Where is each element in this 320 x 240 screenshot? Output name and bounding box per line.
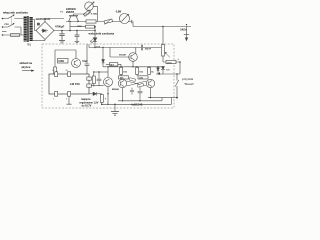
svg-text:100Ω: 100Ω [58, 61, 64, 63]
svg-text:Tr1: Tr1 [27, 44, 31, 47]
wire secondary top to bridge [33, 20, 36, 31]
svg-text:2xBD249: 2xBD249 [66, 8, 76, 11]
svg-text:do 16,7V: do 16,7V [82, 104, 92, 107]
junction dots on rail [61, 30, 96, 32]
LED D1 [90, 27, 101, 49]
svg-text:5: 5 [66, 99, 67, 101]
pin stubs top [55, 72, 58, 77]
svg-text:przycisk: przycisk [182, 77, 194, 81]
flip-flop bottom rail [118, 98, 177, 101]
resistor R6 right of U1 [92, 76, 95, 84]
wire to reset button top [156, 72, 180, 75]
resistor R2 on emitter wire [86, 20, 96, 23]
capacitor C4 100nF [141, 45, 161, 51]
switch S1 pole A [2, 14, 24, 19]
transformer TR1 primary winding [24, 17, 27, 42]
svg-text:PR1: PR1 [5, 24, 10, 26]
resistor R13 [163, 57, 181, 74]
push-button Reset [175, 74, 179, 99]
zener D4 [161, 67, 171, 75]
svg-text:10μF: 10μF [82, 61, 88, 63]
svg-text:11: 11 [66, 70, 68, 72]
dashed board outline [42, 44, 174, 108]
IC U1 LM723 box [49, 70, 91, 100]
svg-text:7: 7 [53, 99, 54, 101]
pin stubs bottom [55, 92, 58, 97]
capacitor C7 [130, 88, 134, 95]
meter M1 (circle with needle) [116, 12, 132, 24]
svg-text:LM 723: LM 723 [70, 82, 80, 86]
svg-text:+: + [177, 57, 179, 61]
svg-text:płytce: płytce [22, 65, 31, 69]
resistor R5 100R with label [58, 58, 69, 63]
wire secondary bottom to bridge [33, 40, 45, 42]
potentiometer P2 vertical with arrow [162, 27, 171, 63]
capacitor C2 [75, 31, 80, 44]
svg-text:1k: 1k [151, 72, 154, 74]
svg-text:10k: 10k [123, 72, 127, 74]
vertical feeds [102, 48, 104, 60]
svg-text:10k: 10k [139, 72, 143, 74]
wire T4 emitter down [107, 93, 108, 105]
ground below LM723 [67, 96, 72, 104]
label uklad na plytce [20, 61, 33, 69]
svg-text:4700μF: 4700μF [55, 25, 65, 29]
svg-text:0,7Ω5: 0,7Ω5 [91, 13, 98, 15]
svg-text:5V6: 5V6 [166, 69, 171, 71]
svg-text:100nF: 100nF [145, 49, 152, 51]
svg-text:"Reset": "Reset" [184, 82, 194, 86]
transformer TR1 secondary winding [30, 17, 33, 41]
svg-text:BC547: BC547 [119, 54, 127, 57]
output text napiecie regulowane [80, 98, 99, 107]
capacitor C5 in flip-flop [138, 87, 143, 101]
output divider resistor R14 [100, 94, 106, 105]
transistor T3 [72, 50, 81, 68]
cross-coupling wires [127, 78, 147, 87]
svg-text:T1: T1 [60, 11, 63, 13]
resistor R4 vertical above LM723 [54, 67, 57, 74]
transistor T6 [118, 79, 126, 100]
output + rail top [133, 22, 191, 27]
capacitor C3 10uF [82, 44, 89, 74]
svg-text:wskaźnik zasilania: wskaźnik zasilania [88, 32, 115, 36]
mechanical link dashed [10, 17, 12, 27]
switch S1 pole B [2, 23, 21, 35]
transformer TR1 core [28, 16, 29, 42]
potentiometer P1 slanted on wire [104, 19, 112, 25]
label 2x2N3055 [66, 8, 76, 14]
transistor T1 symbol (bar) [66, 16, 79, 31]
pin stub right [87, 84, 92, 87]
ground symbol output [111, 104, 119, 116]
mid rail inside board [103, 66, 163, 68]
flip-flop resistor R12 [137, 74, 148, 79]
bottom-right return wires [102, 98, 172, 105]
output terminal with fuse label 5A [180, 27, 189, 41]
emitter wire [79, 21, 131, 23]
resistor R8 vertical [120, 67, 128, 74]
svg-text:włącznik zasilania: włącznik zasilania [2, 11, 28, 15]
wire y72 [93, 71, 108, 72]
svg-text:0k56: 0k56 [167, 62, 173, 64]
inner top wire [89, 44, 141, 48]
LED feed resistor R3 [70, 25, 96, 28]
stub wire [2, 31, 7, 33]
label przycisk Reset [182, 77, 194, 86]
svg-text:12: 12 [52, 70, 54, 72]
capacitor C8 [97, 72, 102, 86]
bridge rectifier B1 [36, 19, 64, 41]
transistor T7 [146, 79, 154, 97]
svg-text:2N3055: 2N3055 [66, 12, 75, 14]
capacitor C1 4700uF [55, 25, 65, 44]
arrow to board [22, 70, 35, 72]
transistor T2 pass (circle with arrow) [74, 2, 98, 22]
resistor R10 vertical [148, 67, 155, 74]
svg-text:+: + [105, 97, 107, 100]
svg-text:0,8W: 0,8W [116, 12, 122, 14]
resistor R1 0.47R slanted [83, 10, 97, 16]
svg-text:BD286: BD286 [112, 89, 120, 91]
pin numbers [52, 70, 67, 100]
resistor R7 4k7 [106, 63, 121, 67]
wire + rail from bridge [54, 30, 95, 32]
fuse Bz1 [2, 34, 24, 37]
wire into board top-left [55, 50, 76, 67]
resistor R9 vertical [136, 67, 144, 74]
transistor T5 [110, 48, 137, 67]
transistor T4 [91, 66, 119, 94]
diode D5 vertical [157, 66, 160, 74]
diode D3 vertical [102, 60, 105, 67]
flip-flop resistor R11 [119, 74, 129, 79]
diode D2 [89, 92, 102, 96]
